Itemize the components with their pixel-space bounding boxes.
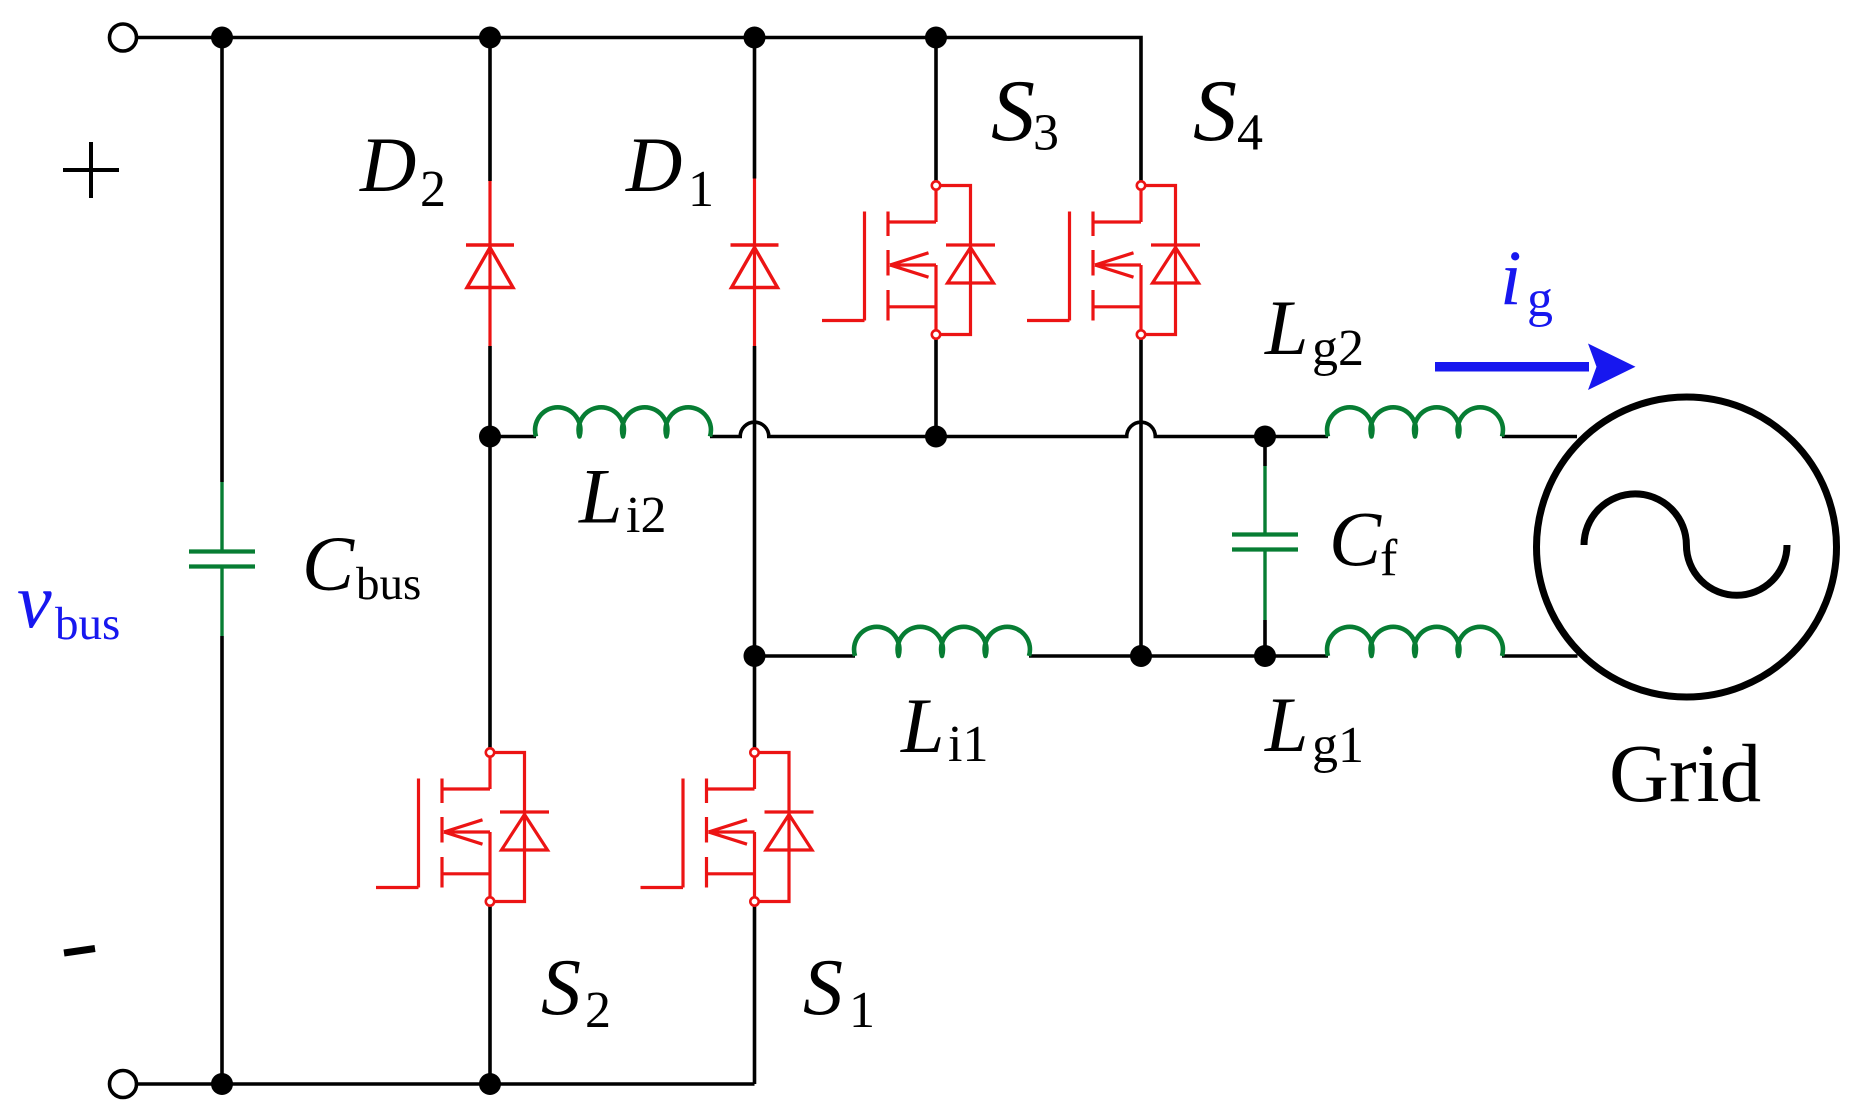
svg-text:2: 2 xyxy=(585,982,611,1039)
svg-text:i2: i2 xyxy=(626,487,666,544)
diode D1 xyxy=(731,245,779,288)
wire D2 top lead xyxy=(488,38,492,182)
diode D2 xyxy=(466,245,514,288)
wire upper AC rail with hops xyxy=(490,422,1577,436)
transistor S2 xyxy=(376,748,549,905)
diode D1 red leads xyxy=(753,179,756,347)
grid sine wave xyxy=(1584,494,1787,595)
svg-text:4: 4 xyxy=(1237,105,1263,162)
svg-text:i: i xyxy=(1500,234,1522,321)
svg-text:1: 1 xyxy=(688,161,714,218)
terminal top left xyxy=(110,24,137,51)
node dot A left xyxy=(479,426,501,448)
node dot bottom S2 xyxy=(479,1073,501,1095)
terminal bottom left xyxy=(110,1071,137,1098)
wire D2 to node A xyxy=(488,346,492,748)
wire S2 source to bottom rail xyxy=(488,906,492,1084)
wire Cbus branch upper xyxy=(220,38,224,483)
transistor S1 xyxy=(641,748,814,905)
svg-text:2: 2 xyxy=(420,161,446,218)
svg-text:bus: bus xyxy=(55,598,120,650)
svg-text:C: C xyxy=(1329,496,1382,583)
wire S3 drain lead xyxy=(934,38,938,182)
svg-text:bus: bus xyxy=(356,558,421,610)
svg-text:f: f xyxy=(1380,530,1398,587)
svg-text:C: C xyxy=(302,520,355,607)
wire Cf upper green lead xyxy=(1263,466,1266,533)
wire D1 top lead xyxy=(753,38,757,179)
node dot B left xyxy=(744,645,766,667)
plus sign xyxy=(63,142,119,198)
svg-text:g: g xyxy=(1527,271,1553,328)
wire bottom rail xyxy=(137,1082,755,1086)
svg-text:L: L xyxy=(1264,681,1308,768)
svg-text:S: S xyxy=(1193,63,1237,160)
wire top rail xyxy=(137,38,1142,182)
svg-text:1: 1 xyxy=(849,982,875,1039)
svg-text:g2: g2 xyxy=(1312,320,1364,377)
svg-text:i1: i1 xyxy=(948,716,988,773)
wire Cf upper stub xyxy=(1263,437,1267,467)
diode D2 red leads xyxy=(488,181,491,346)
svg-text:L: L xyxy=(1264,284,1308,371)
ig arrow xyxy=(1435,344,1636,391)
inductor Li1 xyxy=(854,627,1030,656)
svg-text:L: L xyxy=(900,682,944,769)
wire S1 source to bottom rail xyxy=(753,906,757,1084)
wire Cbus branch lower xyxy=(220,636,224,1084)
wire Cbus lower green lead xyxy=(220,569,223,637)
transistor S3 xyxy=(822,181,995,338)
svg-text:S: S xyxy=(991,63,1035,160)
svg-text:D: D xyxy=(359,121,416,208)
wire S3 source to node A wire xyxy=(934,339,938,437)
node dot top Cbus xyxy=(211,27,233,49)
inductor Lg1 xyxy=(1327,627,1503,656)
svg-text:D: D xyxy=(625,121,682,208)
grid source circle xyxy=(1537,397,1837,697)
wire lower AC rail xyxy=(755,654,1578,658)
svg-text:S: S xyxy=(803,944,843,1032)
node dot top D1 xyxy=(744,27,766,49)
svg-text:g1: g1 xyxy=(1312,717,1364,774)
inductor Li2 xyxy=(535,407,711,436)
wire S4 source down to node B wire xyxy=(1139,339,1143,656)
node dot B S4 xyxy=(1130,645,1152,667)
wire Cf lower stub xyxy=(1263,620,1267,656)
capacitor Cbus xyxy=(189,552,255,567)
svg-text:S: S xyxy=(541,944,581,1032)
node dot top S3 xyxy=(925,27,947,49)
capacitor Cf xyxy=(1232,535,1298,550)
svg-text:Grid: Grid xyxy=(1609,727,1761,819)
minus sign xyxy=(64,949,95,954)
wire Cf lower green lead xyxy=(1263,552,1266,621)
inductor Lg2 xyxy=(1327,407,1503,436)
wire D1 to node B xyxy=(753,346,757,748)
svg-text:3: 3 xyxy=(1033,105,1059,162)
svg-text:v: v xyxy=(17,557,52,644)
node dot bottom Cbus xyxy=(211,1073,233,1095)
node dot top D2 xyxy=(479,27,501,49)
node dot A S3 xyxy=(925,426,947,448)
node dot B Cf xyxy=(1254,645,1276,667)
transistor S4 xyxy=(1027,181,1200,338)
node dot A Cf xyxy=(1254,426,1276,448)
wire Cbus upper green lead xyxy=(220,482,223,550)
svg-text:L: L xyxy=(578,453,622,540)
